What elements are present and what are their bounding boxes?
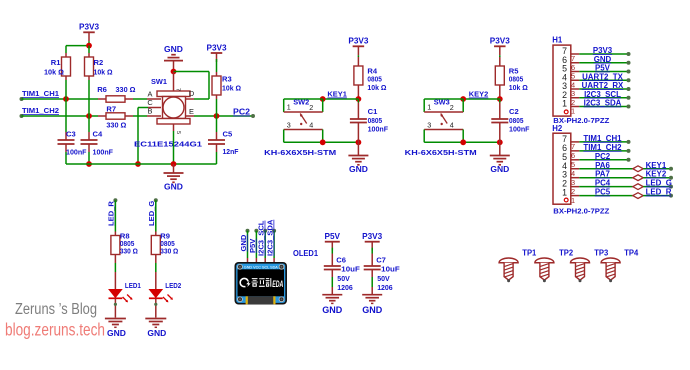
svg-text:LED1: LED1 [125,281,142,290]
svg-text:1: 1 [571,107,575,116]
svg-text:2: 2 [450,103,454,112]
svg-text:KEY1: KEY1 [646,161,667,170]
svg-text:1: 1 [287,103,291,112]
svg-text:PC4: PC4 [595,179,611,188]
svg-text:GND: GND [594,55,612,64]
svg-text:C4: C4 [93,130,103,139]
svg-text:P3V3: P3V3 [79,23,99,32]
svg-text:4: 4 [450,121,454,130]
svg-text:PA6: PA6 [595,161,610,170]
svg-text:R7: R7 [106,105,116,114]
svg-text:7: 7 [175,88,181,91]
svg-text:R6: R6 [97,85,107,94]
svg-text:10uF: 10uF [381,265,400,274]
svg-text:P5V: P5V [325,232,341,241]
svg-text:330 Ω: 330 Ω [160,247,178,256]
svg-text:P5V: P5V [248,238,257,253]
svg-text:E: E [189,107,194,116]
svg-text:D: D [189,89,194,98]
svg-text:KEY2: KEY2 [469,90,489,99]
svg-text:Zeruns ’s Blog: Zeruns ’s Blog [15,301,97,318]
svg-text:H1: H1 [552,36,563,45]
svg-text:TP4: TP4 [624,248,639,257]
svg-text:TIM1_CH2: TIM1_CH2 [22,106,59,115]
svg-text:KH-6X6X5H-STM: KH-6X6X5H-STM [405,148,477,157]
svg-text:PC2: PC2 [595,152,611,161]
svg-text:B: B [148,106,153,115]
svg-text:2: 2 [571,187,575,196]
svg-text:10k Ω: 10k Ω [44,68,64,77]
svg-text:I2C3_SCL: I2C3_SCL [584,90,621,99]
svg-text:C6: C6 [336,256,346,265]
svg-text:GND: GND [490,164,509,174]
svg-text:LED2: LED2 [165,281,181,290]
svg-text:330 Ω: 330 Ω [120,247,138,256]
svg-text:KH-6X6X5H-STM: KH-6X6X5H-STM [264,148,336,157]
svg-text:R2: R2 [94,58,104,67]
svg-text:10uF: 10uF [341,265,360,274]
svg-text:I2C3_SCL: I2C3_SCL [257,220,266,256]
svg-text:GND: GND [362,305,383,315]
svg-text:LED_G: LED_G [646,179,672,188]
svg-text:4: 4 [571,80,575,89]
svg-text:BX-PH2.0-7PZZ: BX-PH2.0-7PZZ [553,206,609,215]
svg-text:5: 5 [175,131,181,134]
svg-text:UART2_TX: UART2_TX [582,72,624,81]
svg-text:1: 1 [562,99,567,109]
svg-text:6: 6 [571,151,575,160]
svg-text:C1: C1 [368,107,378,116]
svg-text:P3V3: P3V3 [362,232,382,241]
svg-text:50V: 50V [377,274,390,283]
svg-text:1: 1 [562,188,567,198]
svg-text:OLED1: OLED1 [293,249,319,258]
svg-text:6: 6 [571,63,575,72]
svg-text:2: 2 [309,103,313,112]
svg-text:4: 4 [309,121,313,130]
svg-text:100nF: 100nF [66,148,87,157]
svg-text:100nF: 100nF [509,124,530,133]
svg-text:P3V3: P3V3 [348,37,368,46]
svg-text:TP3: TP3 [594,248,609,257]
svg-text:C2: C2 [509,107,519,116]
svg-text:TP1: TP1 [522,248,537,257]
svg-text:GND: GND [322,305,343,315]
svg-text:10k Ω: 10k Ω [367,83,386,92]
svg-text:12nF: 12nF [223,147,239,156]
svg-text:blog.zeruns.tech: blog.zeruns.tech [5,320,105,340]
svg-text:GND: GND [147,328,166,338]
svg-text:10k Ω: 10k Ω [94,68,113,77]
svg-text:4: 4 [571,169,575,178]
svg-text:TIM1_CH1: TIM1_CH1 [583,134,622,143]
svg-text:C7: C7 [376,256,386,265]
svg-text:R1: R1 [51,58,61,67]
svg-text:GND VCC SCL SDA: GND VCC SCL SDA [244,265,279,269]
svg-text:GND: GND [107,328,126,338]
svg-text:1206: 1206 [337,283,353,292]
svg-text:1206: 1206 [377,283,393,292]
svg-text:3: 3 [571,89,575,98]
svg-text:GND: GND [349,164,368,174]
svg-text:KEY1: KEY1 [327,90,347,99]
svg-text:P5V: P5V [595,64,611,73]
svg-text:GND: GND [164,44,183,54]
svg-text:C5: C5 [223,130,233,139]
svg-text:7: 7 [571,54,575,63]
svg-text:3: 3 [287,120,291,129]
svg-text:TIM1_CH2: TIM1_CH2 [583,143,622,152]
svg-text:5: 5 [571,160,575,169]
svg-text:100nF: 100nF [93,148,114,157]
svg-text:SW3: SW3 [434,98,450,107]
svg-text:SW1: SW1 [151,77,168,86]
svg-text:EDA: EDA [272,279,283,289]
svg-text:LED_R: LED_R [107,201,116,226]
svg-text:P3V3: P3V3 [206,43,226,52]
svg-text:GND: GND [164,182,183,192]
svg-text:EC11E15244G1: EC11E15244G1 [134,140,203,149]
svg-text:TP2: TP2 [559,248,574,257]
svg-text:10k Ω: 10k Ω [222,84,241,93]
svg-text:I2C3_SDA: I2C3_SDA [266,219,275,256]
svg-text:R3: R3 [222,75,232,84]
svg-text:1: 1 [427,103,431,112]
svg-text:LED_R: LED_R [646,188,672,197]
svg-text:UART2_RX: UART2_RX [582,81,624,90]
svg-text:GND: GND [239,234,248,251]
svg-text:P3V3: P3V3 [490,37,510,46]
svg-text:LED_G: LED_G [147,201,156,226]
svg-text:2: 2 [571,98,575,107]
svg-text:TIM1_CH1: TIM1_CH1 [22,89,60,98]
svg-text:I2C3_SDA: I2C3_SDA [584,99,622,108]
svg-text:P3V3: P3V3 [593,46,613,55]
svg-text:H2: H2 [552,124,563,133]
svg-text:SW2: SW2 [293,98,309,107]
svg-text:330 Ω: 330 Ω [116,85,136,94]
svg-text:330 Ω: 330 Ω [106,121,126,130]
svg-text:10k Ω: 10k Ω [509,83,528,92]
svg-text:1: 1 [571,196,575,205]
svg-text:5: 5 [571,72,575,81]
svg-text:3: 3 [427,120,431,129]
svg-text:100nF: 100nF [368,124,389,133]
svg-text:PC2: PC2 [233,108,251,117]
svg-text:PA7: PA7 [595,170,610,179]
svg-text:7: 7 [571,142,575,151]
svg-text:KEY2: KEY2 [646,170,667,179]
svg-text:3: 3 [571,178,575,187]
svg-text:PC5: PC5 [595,188,611,197]
svg-text:50V: 50V [337,274,350,283]
svg-text:C3: C3 [66,130,76,139]
